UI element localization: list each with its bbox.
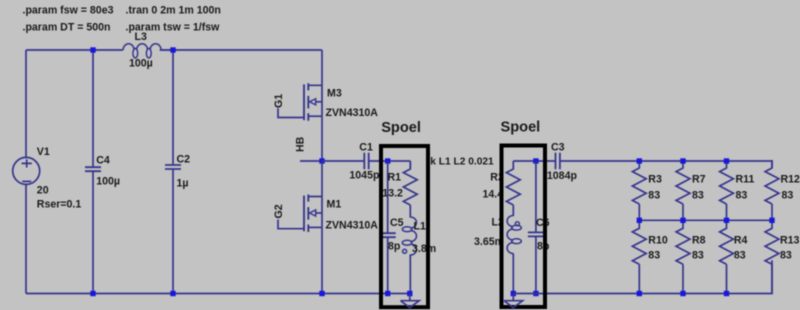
- wire bottom rail right: [513, 260, 772, 293]
- resistor R3: [632, 160, 646, 204]
- junction C2 bottom: [170, 291, 175, 296]
- svg-text:100µ: 100µ: [96, 176, 120, 188]
- wire top rail: [26, 49, 322, 51]
- svg-text:.param fsw = 80e3: .param fsw = 80e3: [23, 5, 114, 17]
- svg-text:83: 83: [734, 250, 746, 262]
- svg-text:ZVN4310A: ZVN4310A: [326, 220, 379, 232]
- wire L1 to bottom: [409, 255, 411, 294]
- transistor M1: [278, 195, 322, 233]
- svg-text:R7: R7: [692, 173, 706, 185]
- inductor L2: [507, 216, 521, 254]
- box Spoel 1: [381, 146, 428, 307]
- wire M1 drain from HB: [321, 161, 323, 197]
- ground box1: [401, 294, 420, 308]
- capacitor C5: [380, 233, 396, 237]
- svg-text:R10: R10: [648, 235, 668, 247]
- svg-text:L1: L1: [414, 221, 426, 233]
- node junction C6 bottom: [533, 291, 538, 296]
- resistor R7: [676, 160, 690, 204]
- capacitor C4: [92, 50, 94, 294]
- svg-text:R3: R3: [648, 173, 662, 185]
- svg-text:1µ: 1µ: [177, 178, 189, 190]
- svg-text:1045p: 1045p: [349, 169, 380, 181]
- wire M3 source to HB: [321, 116, 323, 161]
- junction C4 bottom: [90, 291, 95, 296]
- inductor L1: [402, 217, 416, 255]
- junction R4 bottom: [724, 291, 729, 296]
- svg-text:R8: R8: [692, 235, 706, 247]
- wire HB to C1: [322, 160, 364, 162]
- svg-text:G1: G1: [273, 94, 285, 108]
- resistor R10: [632, 220, 646, 264]
- svg-text:k L1 L2 0.021: k L1 L2 0.021: [430, 157, 494, 168]
- svg-text:R13: R13: [780, 235, 800, 247]
- capacitor C6: [528, 232, 544, 236]
- svg-text:83: 83: [648, 189, 660, 201]
- node junction box2 top: [533, 158, 538, 163]
- svg-text:M3: M3: [327, 88, 342, 100]
- svg-text:L3: L3: [135, 31, 147, 43]
- resistor R1: [409, 161, 411, 168]
- transistor M3: [278, 83, 322, 121]
- capacitor C2: [172, 50, 174, 294]
- svg-text:83: 83: [648, 250, 660, 262]
- resistor R12: [765, 160, 779, 204]
- wire R2 to L2: [512, 205, 514, 216]
- wire C3 to top rail: [560, 161, 772, 168]
- capacitor C3: [556, 153, 560, 170]
- svg-text:3.8m: 3.8m: [412, 243, 436, 255]
- svg-text:83: 83: [780, 250, 792, 262]
- svg-text:Spoel: Spoel: [501, 120, 541, 136]
- svg-text:C4: C4: [96, 155, 110, 167]
- wire middle rail: [639, 219, 772, 221]
- wire box2 top: [513, 160, 555, 162]
- junction R3-R10: [637, 218, 642, 223]
- node junction L1 bottom: [407, 291, 412, 296]
- wire HB stub: [300, 160, 322, 162]
- svg-text:C6: C6: [536, 217, 550, 229]
- resistor R11: [720, 160, 734, 204]
- ground box2: [504, 294, 523, 308]
- junction R7-R8: [680, 218, 685, 223]
- resistor R8: [676, 220, 690, 264]
- voltage source V1: [13, 157, 40, 184]
- capacitor C1: [364, 153, 368, 170]
- junction R8 bottom: [680, 291, 685, 296]
- resistor R2: [506, 161, 520, 205]
- resistor R13: [765, 220, 779, 264]
- svg-text:R4: R4: [734, 235, 748, 247]
- svg-text:C3: C3: [551, 141, 565, 153]
- svg-text:20: 20: [37, 185, 49, 197]
- svg-text:V1: V1: [37, 146, 50, 158]
- junction M1 source rail: [319, 291, 324, 296]
- svg-text:83: 83: [782, 189, 794, 201]
- svg-text:.tran 0 2m 1m 100n: .tran 0 2m 1m 100n: [126, 5, 221, 17]
- junction C2 top: [170, 47, 175, 52]
- svg-text:100µ: 100µ: [129, 58, 153, 70]
- junction R10 bottom: [637, 291, 642, 296]
- svg-text:83: 83: [692, 189, 704, 201]
- node junction L2 bottom: [511, 291, 516, 296]
- box Spoel 2: [502, 146, 546, 308]
- node HB junction: [319, 158, 324, 163]
- junction R11-R4: [724, 218, 729, 223]
- wire M3 drain from top rail: [321, 50, 323, 85]
- node junction box1 entry: [385, 158, 390, 163]
- svg-text:R1: R1: [388, 172, 402, 184]
- svg-text:ZVN4310A: ZVN4310A: [326, 107, 379, 119]
- svg-text:R12: R12: [781, 173, 800, 185]
- svg-text:Rser=0.1: Rser=0.1: [37, 199, 82, 211]
- inductor L3: [161, 49, 173, 51]
- svg-text:83: 83: [692, 250, 704, 262]
- junction R3 top: [637, 158, 642, 163]
- capacitor C6 branch: [535, 161, 537, 294]
- wire C1 to box1: [369, 160, 411, 162]
- svg-text:1084p: 1084p: [547, 170, 578, 182]
- svg-text:13.2: 13.2: [382, 187, 403, 199]
- wire L2 to bottom: [512, 254, 514, 294]
- svg-text:Spoel: Spoel: [381, 120, 421, 136]
- svg-text:.param DT = 500n: .param DT = 500n: [23, 22, 111, 34]
- svg-text:HB: HB: [294, 136, 306, 152]
- svg-text:8p: 8p: [388, 241, 401, 253]
- wire left column: [25, 50, 27, 294]
- wire R1 to L1: [409, 205, 411, 218]
- svg-text:M1: M1: [327, 199, 342, 211]
- svg-text:R11: R11: [736, 173, 755, 185]
- junction R11 top: [724, 158, 729, 163]
- svg-text:C1: C1: [359, 141, 373, 153]
- svg-text:C2: C2: [177, 154, 191, 166]
- resistor R4: [720, 220, 734, 264]
- node junction C5 bottom: [385, 291, 390, 296]
- junction R7 top: [680, 158, 685, 163]
- junction C4 top: [90, 47, 95, 52]
- junction R12-R13: [769, 218, 774, 223]
- wire C5 branch: [387, 161, 389, 294]
- svg-text:C5: C5: [390, 217, 404, 229]
- wire M1 source to bottom rail: [321, 227, 323, 293]
- svg-text:83: 83: [736, 189, 748, 201]
- svg-text:G2: G2: [273, 204, 285, 218]
- wire bottom rail left: [26, 293, 410, 295]
